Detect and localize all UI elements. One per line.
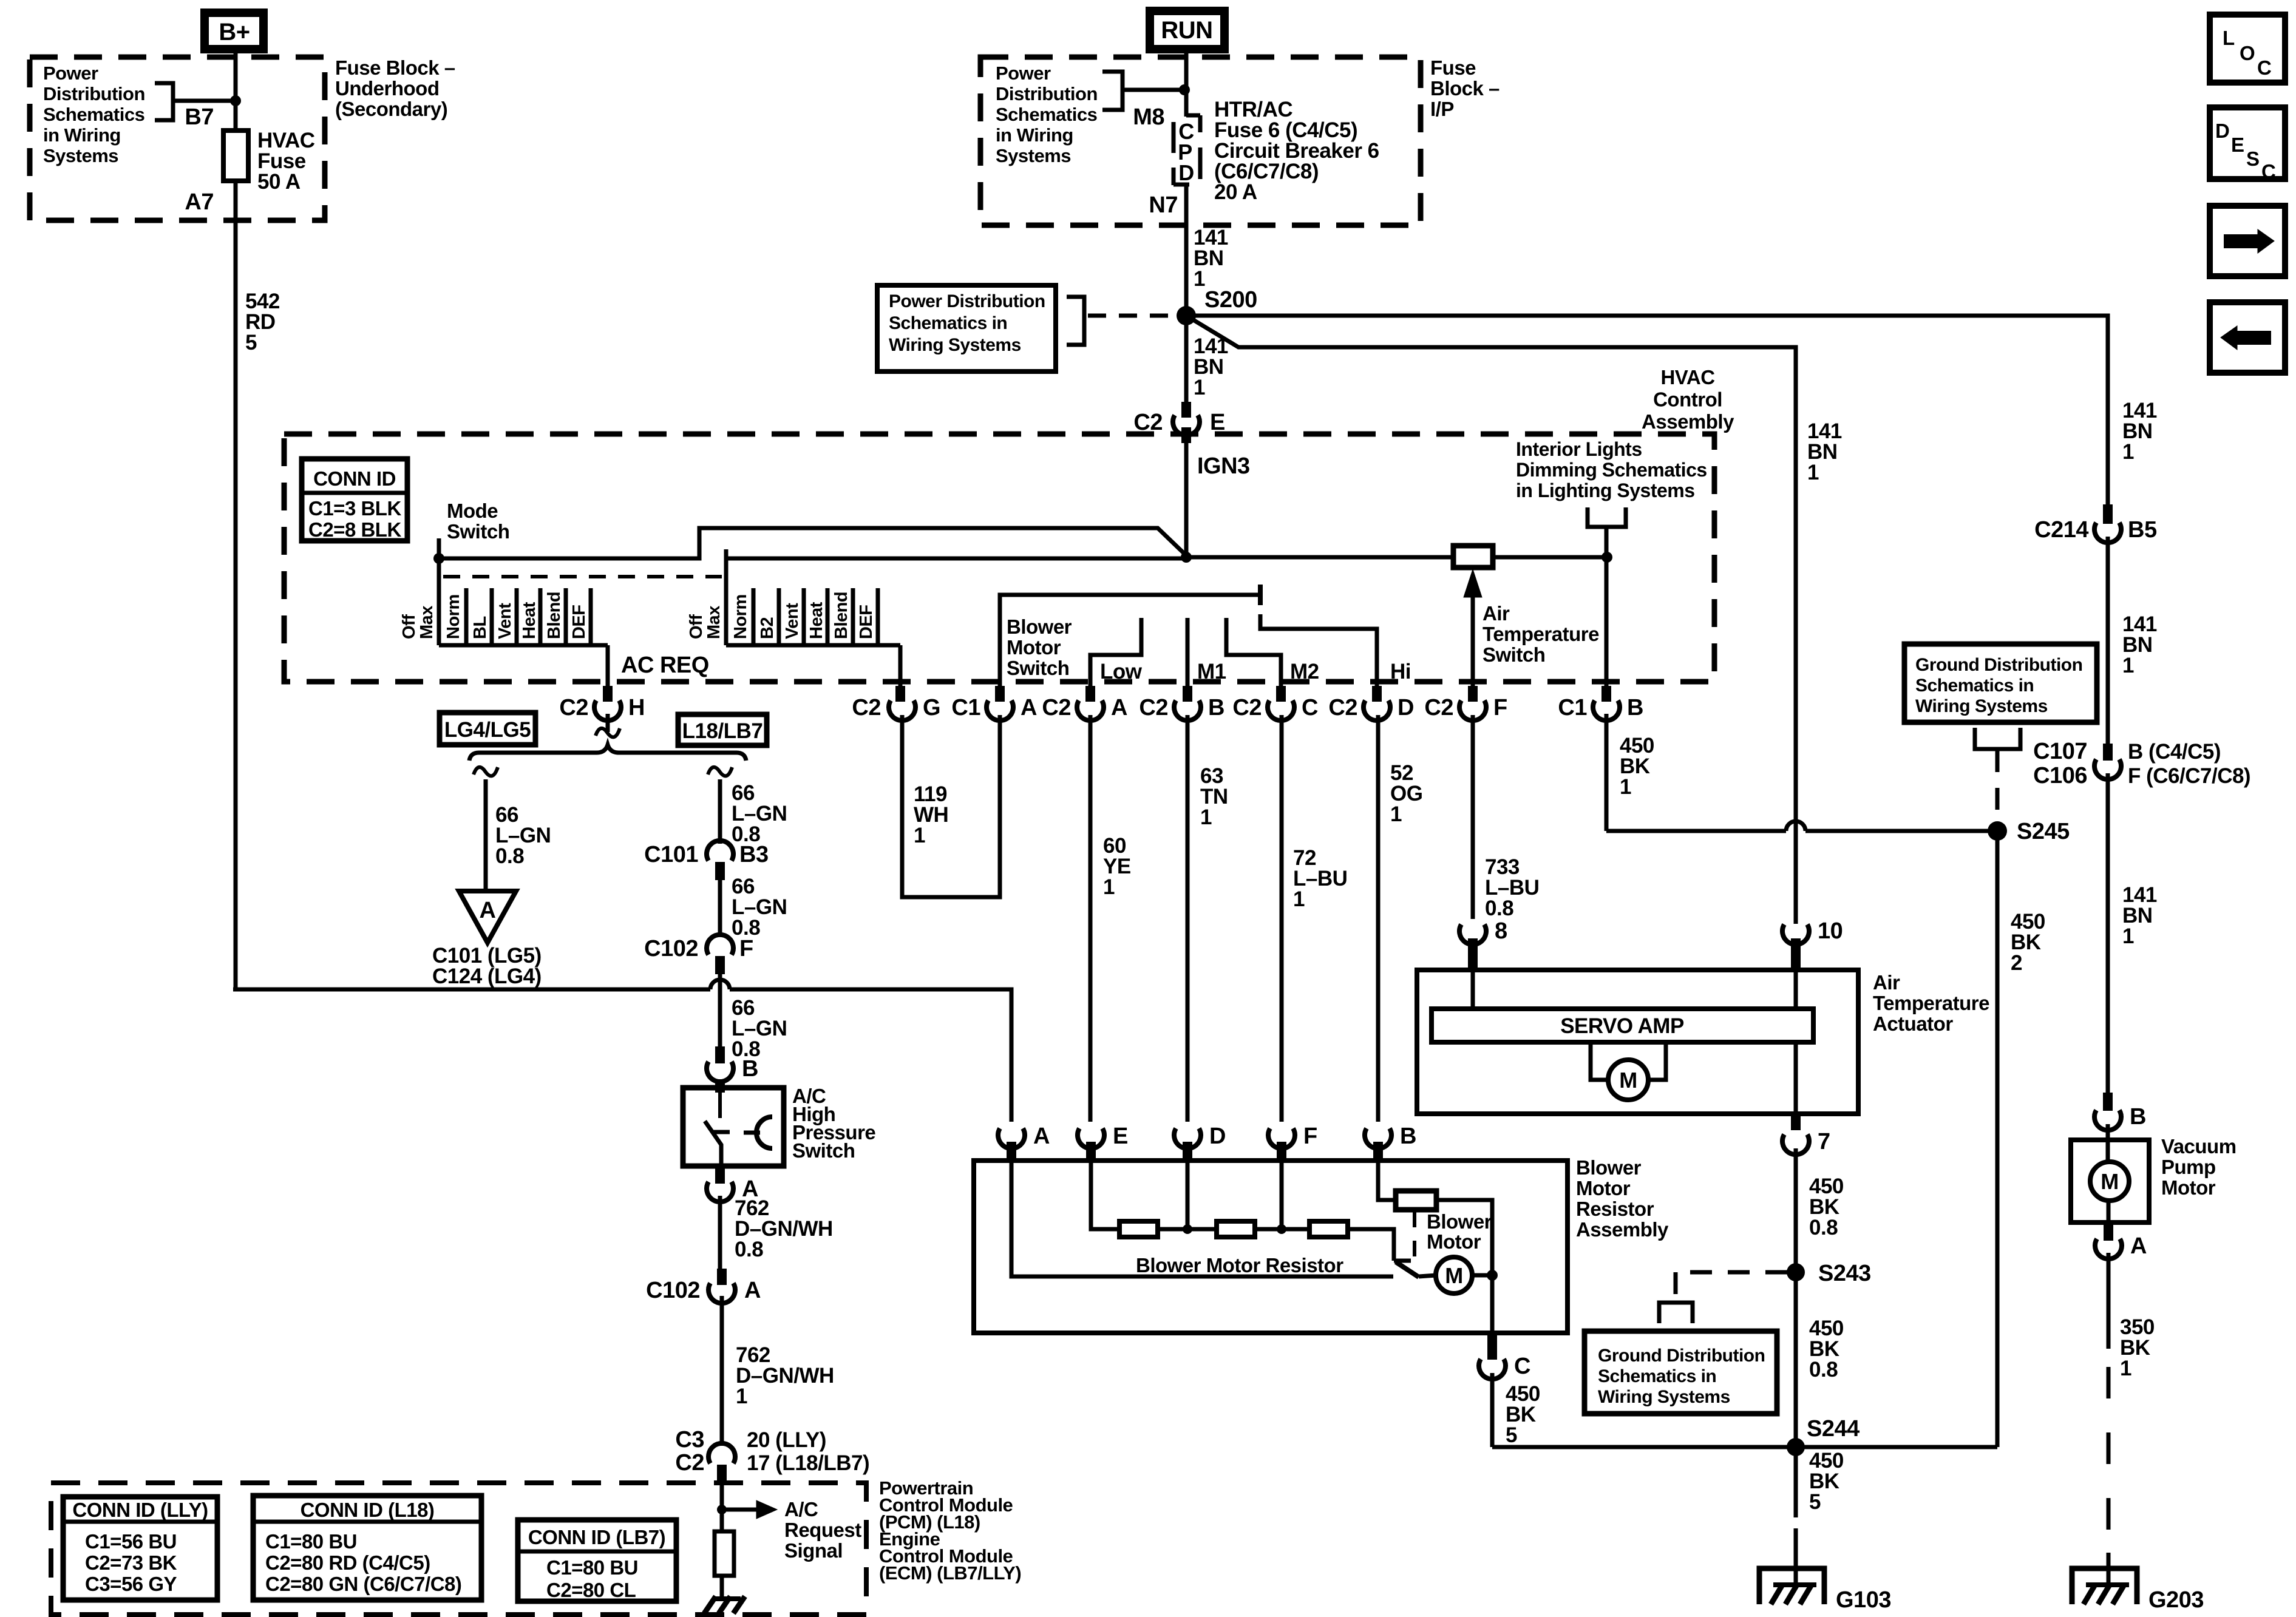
- svg-text:C3=56 GY: C3=56 GY: [85, 1573, 177, 1595]
- svg-text:(Secondary): (Secondary): [335, 98, 447, 120]
- wire pin 7: [1794, 1042, 1798, 1114]
- thermal limiter resistor: [1396, 1191, 1436, 1210]
- connector C2-F: [1468, 686, 1478, 702]
- svg-text:C2: C2: [675, 1450, 704, 1476]
- wire 141 BN 1 to S200: [1184, 185, 1189, 316]
- powertrain control module dashed box: [51, 1483, 866, 1615]
- svg-text:1: 1: [1103, 875, 1115, 899]
- contact M1: [1186, 618, 1190, 686]
- svg-text:CONN ID (L18): CONN ID (L18): [301, 1499, 435, 1521]
- wire S200 bus right upper 141 BN: [1186, 316, 2108, 513]
- svg-text:B5: B5: [2128, 517, 2157, 543]
- svg-text:D–GN/WH: D–GN/WH: [736, 1364, 834, 1388]
- svg-text:Distribution: Distribution: [43, 83, 145, 104]
- svg-text:0.8: 0.8: [735, 1238, 763, 1261]
- svg-text:BL: BL: [470, 616, 490, 639]
- svg-text:Max: Max: [417, 606, 436, 639]
- svg-text:A: A: [1021, 695, 1037, 720]
- svg-text:L18/LB7: L18/LB7: [682, 719, 763, 743]
- svg-text:1: 1: [736, 1385, 747, 1408]
- svg-text:20 A: 20 A: [1214, 180, 1257, 204]
- nav box arrow right: [2210, 206, 2285, 276]
- arrow A/C request signal: [722, 1508, 756, 1512]
- svg-text:C102: C102: [644, 936, 698, 961]
- svg-text:C3: C3: [675, 1427, 704, 1453]
- wire mode bus A to IGN3 junction: [439, 528, 1188, 558]
- svg-text:Underhood: Underhood: [335, 77, 439, 100]
- svg-text:C2: C2: [1424, 695, 1453, 720]
- ground G203: [2072, 1568, 2137, 1604]
- connector B at A/C high pressure switch: [715, 1046, 725, 1063]
- mode switch bank2 base: [726, 643, 900, 648]
- svg-text:B (C4/C5): B (C4/C5): [2128, 740, 2221, 764]
- svg-text:CONN ID: CONN ID: [313, 467, 396, 490]
- wire 60 YE 1: [1089, 715, 1093, 1122]
- svg-text:Interior Lights: Interior Lights: [1516, 438, 1642, 460]
- svg-text:RUN: RUN: [1161, 17, 1212, 44]
- svg-text:B3: B3: [739, 842, 769, 867]
- bracket ground distribution 2: [1659, 1303, 1693, 1323]
- wire 52 OG 1: [1376, 715, 1381, 1122]
- wire S244 to 450 BK 2 corner: [1796, 1445, 1997, 1449]
- svg-text:N7: N7: [1149, 192, 1178, 218]
- wire 350 BK 1: [2107, 1253, 2111, 1349]
- svg-text:S200: S200: [1204, 287, 1257, 313]
- svg-text:17 (L18/LB7): 17 (L18/LB7): [747, 1451, 869, 1475]
- wire 66 L-GN between C101 C102: [718, 880, 722, 935]
- power terminal RUN: [1150, 11, 1224, 49]
- svg-text:Switch: Switch: [447, 520, 509, 543]
- svg-text:Heat: Heat: [807, 602, 826, 639]
- svg-text:F: F: [1493, 695, 1507, 720]
- wire below C2-H with break: [606, 714, 610, 732]
- blower switch wiper bus: [1000, 595, 1260, 686]
- connector C101-B3: [707, 841, 733, 861]
- svg-text:1: 1: [1194, 267, 1205, 291]
- svg-text:Block –: Block –: [1430, 77, 1500, 100]
- svg-text:Schematics in: Schematics in: [1915, 676, 2034, 696]
- node A/C request junction dot: [717, 1505, 727, 1514]
- thermal limiter dashed link: [1413, 1212, 1416, 1266]
- servo amp box: [1432, 1009, 1813, 1042]
- svg-text:S: S: [2246, 147, 2260, 170]
- ground distribution box 2: [1584, 1331, 1777, 1414]
- wire mode bus B to IGN3 junction: [726, 557, 1188, 561]
- svg-text:Power: Power: [996, 63, 1051, 84]
- nav box LOC: [2210, 15, 2285, 83]
- wire Hi transfer: [1260, 614, 1377, 686]
- mode switch bank1 base: [439, 643, 608, 648]
- svg-text:Wiring Systems: Wiring Systems: [889, 335, 1021, 355]
- bracket from box: [1067, 297, 1084, 345]
- svg-text:D: D: [2215, 120, 2229, 142]
- svg-text:Motor: Motor: [1427, 1230, 1481, 1253]
- svg-text:AC REQ: AC REQ: [621, 653, 709, 678]
- connector C2-B: [1183, 686, 1192, 702]
- svg-text:Low: Low: [1100, 660, 1143, 683]
- CONN ID table HVAC: [302, 459, 407, 541]
- connector 8: [1459, 924, 1486, 944]
- svg-text:1: 1: [1620, 775, 1631, 799]
- fuse block I/P dashed box: [980, 57, 1421, 225]
- svg-text:E: E: [2231, 134, 2244, 156]
- node B7 junction dot: [230, 95, 241, 106]
- ground symbol PCM: [715, 1596, 741, 1601]
- nav box DESC: [2210, 107, 2285, 179]
- svg-text:7: 7: [1818, 1129, 1830, 1154]
- wire AC REQ output: [606, 645, 610, 686]
- svg-text:C2=80 CL: C2=80 CL: [546, 1579, 636, 1601]
- wire chain output to blade: [1348, 1229, 1394, 1261]
- svg-text:DEF: DEF: [569, 605, 589, 640]
- svg-text:Norm: Norm: [731, 594, 750, 639]
- node D tap dot: [1183, 1224, 1192, 1234]
- CONN ID table LLY: [63, 1497, 217, 1600]
- svg-text:in Wiring: in Wiring: [996, 124, 1073, 146]
- blower motor M circle: [1419, 1275, 1436, 1276]
- svg-text:Vent: Vent: [783, 603, 802, 639]
- connector C102-F: [707, 935, 733, 955]
- svg-text:2: 2: [2011, 951, 2022, 975]
- mechanical link dashes banks: [443, 575, 722, 578]
- wire bank2 output to C2-G: [898, 645, 903, 686]
- svg-text:Actuator: Actuator: [1873, 1012, 1953, 1035]
- node motor output dot: [1487, 1270, 1498, 1281]
- svg-text:D: D: [1398, 695, 1414, 720]
- svg-text:C1: C1: [951, 695, 980, 720]
- svg-text:Systems: Systems: [43, 145, 118, 166]
- connector A resistor assembly: [998, 1128, 1025, 1148]
- wire 450 BK 0.8 to S243: [1794, 1148, 1798, 1272]
- dashed wire to G203: [2107, 1367, 2111, 1555]
- svg-text:1: 1: [2122, 924, 2134, 948]
- svg-text:C2: C2: [852, 695, 881, 720]
- node IGN3 junction dot: [1181, 552, 1192, 563]
- svg-text:M8: M8: [1133, 104, 1164, 130]
- servo motor M: [1591, 1042, 1610, 1080]
- svg-text:Vent: Vent: [495, 603, 515, 639]
- wire 450 BK 2 S245 to S244 line: [1995, 831, 2000, 1447]
- svg-text:C2: C2: [1328, 695, 1357, 720]
- box LG4/LG5: [440, 713, 535, 745]
- svg-text:C2=8 BLK: C2=8 BLK: [308, 518, 401, 541]
- svg-text:A: A: [2130, 1233, 2147, 1259]
- resistor 1 blower: [1119, 1221, 1158, 1237]
- resistor 2 blower: [1217, 1221, 1255, 1237]
- svg-text:Fuse Block –: Fuse Block –: [335, 56, 455, 79]
- splice S200: [1177, 306, 1196, 325]
- svg-text:in Wiring: in Wiring: [43, 124, 121, 146]
- connector C2-D: [1372, 686, 1382, 702]
- svg-text:Schematics: Schematics: [996, 104, 1097, 125]
- svg-text:Distribution: Distribution: [996, 83, 1098, 104]
- wire 733 L-BU 0.8: [1471, 715, 1475, 919]
- svg-text:0.8: 0.8: [495, 844, 524, 868]
- svg-text:Ground Distribution: Ground Distribution: [1598, 1346, 1765, 1366]
- svg-text:F (C6/C7/C8): F (C6/C7/C8): [2128, 764, 2250, 788]
- wire E to resistor chain: [1091, 1163, 1119, 1229]
- air temperature actuator box: [1417, 970, 1858, 1114]
- svg-text:Off: Off: [687, 614, 706, 639]
- connector 10: [1782, 924, 1809, 944]
- switch blade blower: [1396, 1262, 1419, 1277]
- svg-text:1: 1: [2122, 440, 2134, 464]
- connector C1-A: [995, 686, 1005, 702]
- connector C102-A: [717, 1269, 727, 1285]
- svg-text:Vacuum: Vacuum: [2161, 1135, 2237, 1158]
- svg-text:A: A: [1111, 695, 1127, 720]
- connector A below pressure switch: [715, 1166, 725, 1184]
- svg-text:Hi: Hi: [1390, 660, 1411, 683]
- ground distribution box 1: [1904, 644, 2097, 722]
- splice S243: [1787, 1263, 1805, 1281]
- svg-text:C2=73 BK: C2=73 BK: [85, 1551, 177, 1574]
- svg-text:F: F: [1303, 1124, 1317, 1149]
- svg-text:B+: B+: [219, 19, 250, 46]
- dashed wire to G103: [1794, 1528, 1798, 1555]
- svg-text:8: 8: [1495, 918, 1507, 944]
- svg-text:Schematics: Schematics: [43, 104, 144, 125]
- svg-text:5: 5: [1506, 1423, 1517, 1447]
- svg-text:Switch: Switch: [792, 1139, 855, 1162]
- fuse HVAC 50A: [223, 131, 248, 181]
- svg-text:in Lighting Systems: in Lighting Systems: [1516, 480, 1695, 501]
- triangle connector A: [459, 891, 516, 943]
- svg-text:C: C: [2257, 56, 2271, 79]
- svg-text:B7: B7: [185, 104, 214, 130]
- wire right branch 66 L-GN: [708, 767, 732, 776]
- svg-text:(ECM) (LB7/LLY): (ECM) (LB7/LLY): [879, 1562, 1021, 1584]
- svg-text:Signal: Signal: [784, 1539, 843, 1562]
- connector C2-C: [1276, 686, 1286, 702]
- wire 141 BN 1 below S200: [1184, 316, 1189, 402]
- svg-text:C2: C2: [1139, 695, 1168, 720]
- circuit breaker 6 C-P-D symbol: [1186, 114, 1200, 118]
- wire 542 rail to blower resistor: [233, 988, 710, 992]
- svg-text:Air: Air: [1873, 971, 1900, 994]
- splice S245: [1988, 821, 2007, 841]
- wire A rail inside box: [1011, 1163, 1393, 1276]
- svg-text:S245: S245: [2017, 819, 2070, 844]
- svg-text:Heat: Heat: [520, 602, 539, 639]
- svg-text:D: D: [1209, 1124, 1226, 1149]
- svg-text:C106: C106: [2033, 763, 2087, 788]
- svg-text:C1=56 BU: C1=56 BU: [85, 1530, 177, 1553]
- bracket ground distribution 1: [1975, 728, 2020, 749]
- connector F resistor assembly: [1268, 1128, 1295, 1148]
- svg-text:Schematics in: Schematics in: [889, 313, 1007, 333]
- wire C1-B to S245 with hop: [1606, 829, 1786, 833]
- svg-text:Blower: Blower: [1427, 1210, 1492, 1233]
- svg-text:Air: Air: [1483, 602, 1510, 625]
- connector B vacuum pump: [2103, 1093, 2113, 1111]
- svg-text:Norm: Norm: [444, 594, 463, 639]
- svg-text:G103: G103: [1836, 1587, 1891, 1613]
- svg-text:Pump: Pump: [2161, 1156, 2216, 1178]
- svg-text:G: G: [923, 695, 940, 720]
- connector A vacuum pump: [2107, 1201, 2111, 1222]
- svg-text:Assembly: Assembly: [1642, 410, 1734, 433]
- svg-text:5: 5: [245, 331, 257, 354]
- connector C1-B: [1601, 686, 1611, 702]
- contact Low: [1090, 618, 1141, 686]
- svg-text:Power: Power: [43, 63, 98, 84]
- wire 450 BK 0.8 S243 to S244: [1794, 1272, 1798, 1447]
- dashed link S243 to ground distribution: [1676, 1270, 1787, 1275]
- mode switch wiper 2: [724, 549, 729, 645]
- svg-text:C: C: [2261, 160, 2275, 183]
- svg-text:C101: C101: [644, 842, 698, 867]
- connector C107/C106: [2103, 744, 2113, 761]
- svg-text:M: M: [1445, 1263, 1463, 1288]
- svg-text:Blower: Blower: [1576, 1156, 1642, 1179]
- svg-text:Fuse: Fuse: [1430, 56, 1476, 79]
- fuse block underhood dashed box: [30, 57, 325, 220]
- connector C resistor assembly: [1487, 1333, 1497, 1360]
- wire 450 BK 5 to S244: [1490, 1373, 1495, 1447]
- svg-text:M: M: [2101, 1169, 2119, 1194]
- svg-text:SERVO AMP: SERVO AMP: [1560, 1014, 1684, 1038]
- svg-text:O: O: [2240, 42, 2255, 64]
- wire B+ to fuse: [234, 53, 238, 131]
- svg-text:Off: Off: [399, 614, 419, 639]
- svg-text:C124 (LG4): C124 (LG4): [432, 964, 542, 988]
- air temperature switch rheostat arrow: [1471, 583, 1475, 686]
- svg-text:L: L: [2223, 27, 2235, 49]
- svg-text:B: B: [2130, 1104, 2146, 1130]
- svg-text:A: A: [480, 898, 496, 923]
- svg-text:C2: C2: [1042, 695, 1071, 720]
- wire 63 TN 1: [1186, 715, 1190, 1122]
- svg-text:C2: C2: [1232, 695, 1262, 720]
- svg-text:20 (LLY): 20 (LLY): [747, 1428, 826, 1452]
- connector E resistor assembly: [1078, 1128, 1104, 1148]
- dashed link to S245: [1995, 750, 2000, 821]
- wire 450 BK 5 below S244: [1794, 1447, 1798, 1517]
- svg-text:E: E: [1113, 1124, 1128, 1149]
- splice S244: [1787, 1438, 1805, 1456]
- svg-text:1: 1: [2122, 654, 2134, 677]
- svg-text:Temperature: Temperature: [1873, 992, 1989, 1014]
- svg-text:B: B: [1627, 695, 1643, 720]
- wire crossover hop over 542 rail: [718, 974, 722, 1046]
- CONN ID table LB7: [518, 1520, 676, 1601]
- wire dimming bus: [1186, 555, 1453, 560]
- box L18/LB7: [678, 714, 767, 745]
- svg-text:1: 1: [914, 824, 925, 847]
- connector C2-E: [1181, 402, 1191, 418]
- svg-text:Blower: Blower: [1007, 615, 1072, 638]
- A/C high pressure switch box: [683, 1088, 784, 1166]
- svg-text:C2: C2: [559, 695, 588, 720]
- svg-text:M: M: [1619, 1068, 1637, 1093]
- wire left branch 66 L-GN: [474, 767, 498, 776]
- svg-text:50 A: 50 A: [257, 170, 301, 194]
- svg-text:1: 1: [1390, 802, 1402, 826]
- svg-text:Motor: Motor: [1576, 1177, 1631, 1199]
- connector B resistor assembly: [1365, 1128, 1391, 1148]
- wire 72 L-BU 1: [1280, 715, 1284, 1122]
- svg-text:M1: M1: [1197, 660, 1226, 683]
- connector C2-A: [1085, 686, 1095, 702]
- svg-text:Resistor: Resistor: [1576, 1198, 1654, 1220]
- svg-text:C2=80 GN (C6/C7/C8): C2=80 GN (C6/C7/C8): [265, 1573, 461, 1595]
- wire 542 RD 5: [234, 181, 238, 989]
- wire S200 bus right lower to servo branch: [1186, 316, 1796, 924]
- CONN ID table L18: [253, 1496, 481, 1600]
- svg-text:Blend: Blend: [545, 592, 564, 639]
- bracket interior lights dimming: [1588, 507, 1626, 527]
- svg-text:Motor: Motor: [1007, 636, 1061, 659]
- wire 141 BN 1 to vacuum pump: [2106, 773, 2110, 1093]
- svg-text:B: B: [742, 1056, 758, 1082]
- resistor in PCM: [715, 1531, 734, 1576]
- wire RUN down: [1184, 53, 1189, 117]
- node M8 junction dot: [1179, 84, 1190, 95]
- svg-text:C102: C102: [646, 1278, 700, 1303]
- svg-text:10: 10: [1818, 918, 1843, 944]
- svg-text:F: F: [739, 936, 753, 961]
- wire 762 D-GN/WH 0.8: [718, 1196, 722, 1269]
- svg-text:A: A: [1033, 1124, 1050, 1149]
- svg-text:D: D: [1178, 160, 1194, 185]
- blower switch T bar: [1258, 585, 1263, 605]
- svg-text:C1: C1: [1558, 695, 1587, 720]
- svg-text:Wiring Systems: Wiring Systems: [1598, 1387, 1730, 1407]
- svg-text:Wiring Systems: Wiring Systems: [1915, 696, 2048, 716]
- wire B to thermal limiter: [1378, 1163, 1396, 1200]
- power distribution schematics box: [877, 285, 1056, 371]
- svg-text:A: A: [744, 1278, 761, 1303]
- svg-text:LG4/LG5: LG4/LG5: [444, 718, 531, 742]
- svg-text:Mode: Mode: [447, 500, 498, 522]
- connector C2-G: [895, 686, 905, 702]
- svg-text:Temperature: Temperature: [1483, 623, 1599, 645]
- blower motor resistor assembly box: [974, 1161, 1567, 1333]
- HVAC control assembly dashed box: [284, 434, 1714, 682]
- wire thermal limiter to motor feed: [1436, 1200, 1492, 1333]
- svg-text:Schematics in: Schematics in: [1598, 1366, 1716, 1386]
- ground G103: [1759, 1568, 1824, 1604]
- mode switch wiper 1: [437, 538, 441, 645]
- connector C2-H: [603, 686, 613, 702]
- svg-text:0.8: 0.8: [1809, 1358, 1838, 1381]
- svg-text:Systems: Systems: [996, 145, 1071, 166]
- bank1 contact bars: [464, 588, 469, 645]
- svg-text:S243: S243: [1818, 1261, 1871, 1286]
- svg-text:H: H: [628, 695, 645, 720]
- brace LG4-LG5 / L18-LB7: [469, 745, 746, 761]
- svg-text:0.8: 0.8: [1485, 897, 1513, 920]
- svg-text:B: B: [1400, 1124, 1416, 1149]
- svg-text:Power Distribution: Power Distribution: [889, 291, 1045, 311]
- svg-text:C1=80 BU: C1=80 BU: [546, 1556, 638, 1579]
- dashed wire to S200: [1088, 314, 1181, 318]
- svg-text:1: 1: [1194, 376, 1205, 399]
- svg-text:1: 1: [2120, 1357, 2131, 1380]
- svg-text:C107: C107: [2033, 739, 2087, 764]
- svg-text:C214: C214: [2034, 517, 2088, 543]
- bracket to M8 node: [1102, 72, 1123, 110]
- node dimming junction dot: [1601, 552, 1612, 563]
- svg-text:Request: Request: [784, 1519, 861, 1541]
- svg-text:Switch: Switch: [1483, 643, 1545, 666]
- svg-text:C: C: [1302, 695, 1318, 720]
- svg-text:IGN3: IGN3: [1197, 453, 1250, 479]
- wire 141 BN 1 below C214: [2106, 537, 2110, 744]
- vacuum pump motor box: [2106, 1124, 2110, 1162]
- svg-text:1: 1: [1200, 805, 1212, 829]
